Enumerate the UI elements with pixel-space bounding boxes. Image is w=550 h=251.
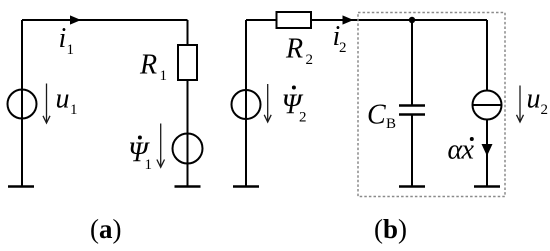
label Psi2 (with dot): [282, 86, 307, 126]
wire: capacitor branch lower: [411, 115, 413, 187]
label u1: [56, 84, 78, 119]
svg-text:1: 1: [67, 42, 75, 58]
svg-text:i: i: [59, 23, 67, 54]
wire: circuit (b) right vertical wire lower: [486, 120, 488, 187]
node: junction dot on top wire: [409, 17, 415, 23]
resistor R2: [277, 12, 312, 28]
wire: circuit (b) left vertical wire: [245, 20, 247, 187]
controlled current source (circle with horizontal bar): [473, 91, 502, 120]
svg-text:2: 2: [541, 102, 549, 118]
svg-text:B: B: [386, 116, 396, 132]
svg-text:u: u: [527, 84, 541, 115]
wire: capacitor branch upper: [411, 20, 413, 106]
label i1: [59, 23, 75, 58]
current direction arrow of controlled source (down triangle): [482, 144, 493, 156]
svg-text:(b): (b): [374, 214, 407, 244]
svg-text:u: u: [56, 84, 70, 115]
label alpha x-dot: [448, 135, 475, 166]
wire: circuit (b) top wire left segment: [246, 19, 278, 21]
u2 voltage arrow (down): [517, 86, 524, 123]
svg-text:1: 1: [160, 68, 168, 84]
Psi1 direction arrow (down): [157, 124, 165, 168]
dashed box (subsystem boundary): [358, 13, 505, 197]
terminal bar below controlled source: [474, 185, 500, 188]
current direction arrow i1 on top wire: [70, 15, 81, 24]
voltage source Psi2 (circle, wire passes through): [232, 90, 261, 119]
label CB: [367, 100, 396, 133]
svg-text:(a): (a): [90, 214, 122, 244]
wire: circuit (a) top wire: [22, 19, 188, 21]
label u2: [527, 84, 549, 119]
terminal bar bottom-left of (b): [233, 185, 259, 188]
label R2: [285, 34, 313, 69]
label i2: [333, 21, 347, 56]
Psi2 direction arrow (down): [264, 84, 271, 122]
flux source Psi1 (circle, wire passes through): [173, 134, 203, 164]
terminal bar below capacitor: [399, 185, 425, 188]
terminal bar bottom-right of (a): [175, 185, 201, 188]
u1 voltage arrow (down): [43, 84, 50, 124]
label Psi1 (with dot): [128, 136, 152, 174]
wire: circuit (a) right vertical wire upper: [187, 20, 189, 47]
svg-text:2: 2: [339, 40, 347, 56]
terminal bar bottom-left of (a): [8, 185, 34, 188]
svg-text:2: 2: [306, 52, 314, 68]
svg-text:1: 1: [70, 102, 78, 118]
wire: circuit (b) top wire middle segment: [311, 19, 487, 21]
svg-text:2: 2: [299, 110, 307, 126]
svg-text:C: C: [367, 100, 386, 131]
wire: circuit (a) right vertical wire lower: [187, 80, 189, 187]
capacitor CB bottom plate: [399, 113, 425, 115]
wire: circuit (b) right vertical wire upper: [486, 20, 488, 91]
label R1: [139, 50, 167, 85]
wire: circuit (a) left vertical wire: [21, 20, 23, 187]
capacitor CB top plate: [399, 104, 425, 106]
svg-text:R: R: [285, 34, 303, 65]
svg-text:R: R: [139, 50, 157, 81]
svg-text:1: 1: [145, 157, 153, 173]
current direction arrow i2 on top wire: [343, 15, 354, 24]
voltage source u1 (circle, wire passes through): [8, 90, 37, 119]
resistor R1: [178, 45, 197, 80]
